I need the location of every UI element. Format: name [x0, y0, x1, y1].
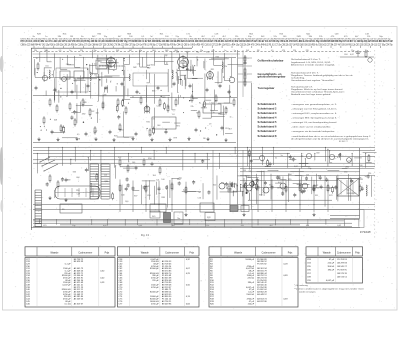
svg-text:0,1: 0,1	[301, 155, 304, 157]
svg-text:100: 100	[96, 112, 99, 114]
svg-text:- wordt bediend door de in- en: - wordt bediend door de in- en uit-schak…	[291, 135, 371, 138]
svg-text:5n: 5n	[69, 50, 71, 52]
svg-text:F71048: F71048	[360, 230, 371, 234]
svg-text:C64: C64	[344, 54, 347, 56]
svg-text:B8 979 35: B8 979 35	[337, 273, 347, 275]
svg-text:8u: 8u	[158, 193, 160, 195]
svg-text:5n: 5n	[234, 50, 236, 52]
svg-text:5n: 5n	[281, 155, 283, 157]
svg-text:1n: 1n	[113, 70, 115, 72]
svg-text:220 kΩ: 220 kΩ	[248, 278, 255, 280]
svg-text:Gevoeligheids- en: Gevoeligheids- en	[258, 74, 283, 76]
svg-text:5n: 5n	[224, 50, 226, 52]
svg-text:S9: S9	[196, 112, 198, 114]
svg-text:S91: S91	[176, 125, 179, 127]
svg-text:Schakelstand 2: Schakelstand 2	[258, 107, 278, 110]
svg-text:3k3: 3k3	[246, 50, 249, 52]
svg-text:470: 470	[282, 50, 285, 52]
svg-text:S33: S33	[73, 172, 76, 174]
svg-text:220 µF: 220 µF	[328, 262, 335, 264]
svg-text:0,02: 0,02	[139, 225, 143, 227]
svg-text:Schakelstand 1: Schakelstand 1	[258, 103, 278, 106]
svg-text:C9: C9	[209, 124, 211, 126]
svg-text:C16: C16	[197, 197, 200, 199]
svg-text:S11: S11	[315, 195, 318, 197]
svg-text:A3 319 37: A3 319 37	[74, 302, 84, 305]
svg-text:- ontvangst van het KG2-gebied: - ontvangst van het KG2-gebied, 13-50 m.	[291, 107, 337, 110]
svg-text:2M2: 2M2	[82, 114, 86, 116]
svg-text:Golfbereikschakelaar: Golfbereikschakelaar	[258, 60, 284, 63]
svg-text:6k8: 6k8	[175, 50, 178, 52]
svg-text:6k8: 6k8	[54, 119, 57, 121]
svg-text:0,047 µF: 0,047 µF	[62, 285, 71, 287]
svg-text:15p: 15p	[139, 50, 142, 52]
svg-text:15p: 15p	[94, 50, 97, 52]
svg-text:6k8: 6k8	[165, 50, 168, 52]
svg-text:Schakelstand 5 t/m 7.: Schakelstand 5 t/m 7.	[291, 58, 322, 61]
svg-text:S52: S52	[94, 75, 97, 77]
svg-text:70p: 70p	[365, 50, 368, 52]
svg-text:S45: S45	[152, 216, 155, 218]
svg-text:100: 100	[161, 179, 164, 181]
svg-text:R6: R6	[203, 138, 205, 140]
svg-text:R51: R51	[76, 190, 79, 192]
svg-text:S37: S37	[134, 196, 137, 198]
svg-text:F5 970 92: F5 970 92	[257, 263, 267, 265]
svg-text:R34: R34	[148, 158, 151, 160]
svg-text:Codenummer: Codenummer	[78, 252, 92, 255]
svg-text:C14: C14	[147, 195, 150, 197]
svg-text:C4: C4	[172, 114, 174, 116]
svg-text:22k: 22k	[34, 50, 37, 52]
svg-text:12k: 12k	[206, 225, 209, 227]
svg-text:S89: S89	[221, 113, 224, 115]
svg-text:Waarde: Waarde	[141, 252, 150, 255]
svg-text:R69: R69	[67, 179, 70, 181]
svg-text:6k8: 6k8	[316, 152, 319, 154]
svg-text:Regelbaar. Werkt in op het hog: Regelbaar. Werkt in op het hoge tonen-ka…	[291, 88, 343, 91]
svg-text:470: 470	[43, 225, 46, 227]
svg-text:Waarde: Waarde	[323, 252, 332, 255]
svg-text:15p: 15p	[72, 225, 75, 227]
svg-text:22k: 22k	[191, 106, 194, 108]
svg-text:C91: C91	[94, 131, 97, 133]
svg-text:Waarde: Waarde	[234, 252, 243, 255]
svg-text:R64: R64	[216, 57, 219, 59]
svg-text:47 µF: 47 µF	[329, 259, 335, 261]
svg-text:220 µF: 220 µF	[152, 280, 159, 282]
svg-text:0,02: 0,02	[183, 190, 187, 192]
svg-text:3k3: 3k3	[153, 175, 156, 177]
svg-text:1M: 1M	[243, 170, 246, 172]
svg-text:50p: 50p	[44, 50, 47, 52]
svg-text:0,02: 0,02	[278, 182, 282, 184]
svg-text:Schakelstand 4: Schakelstand 4	[258, 116, 278, 119]
svg-text:0,1 pF: 0,1 pF	[65, 263, 72, 265]
svg-text:0,1: 0,1	[262, 161, 265, 163]
svg-text:- idem; doch via het smalband-: - idem; doch via het smalband-filter.	[291, 125, 332, 128]
svg-text:R55: R55	[288, 179, 291, 181]
svg-text:220: 220	[306, 50, 309, 52]
svg-text:R20: R20	[120, 129, 123, 131]
svg-text:B8 628 39: B8 628 39	[74, 261, 84, 263]
svg-text:C85 8u R12 470 C46 50p: C85 8u R12 470 C46 50p R96 5n C40 39k R1…	[21, 38, 392, 40]
svg-text:R65: R65	[162, 97, 165, 99]
svg-text:4k7: 4k7	[186, 52, 189, 54]
svg-text:A3 299 83: A3 299 83	[337, 261, 347, 264]
svg-text:4700 pF: 4700 pF	[151, 287, 159, 289]
svg-text:0,047 µF: 0,047 µF	[326, 280, 335, 282]
svg-text:S78: S78	[329, 195, 332, 197]
svg-text:22k: 22k	[359, 178, 362, 180]
svg-text:Gecombineerd met regelaar "Gra: Gecombineerd met regelaar "Gramofilter".	[291, 79, 335, 82]
svg-text:Gecombineerd met schakelaar "B: Gecombineerd met schakelaar "Breede-Spit…	[291, 91, 345, 94]
svg-text:100: 100	[306, 225, 309, 227]
svg-text:220: 220	[66, 64, 69, 66]
svg-text:0,1: 0,1	[337, 157, 340, 159]
svg-text:390 pF: 390 pF	[248, 282, 255, 284]
svg-text:Codenummer: Codenummer	[262, 252, 276, 255]
svg-text:S34: S34	[221, 183, 224, 185]
svg-text:S17: S17	[269, 185, 272, 187]
svg-text:100: 100	[125, 201, 128, 203]
svg-text:B8 449 96: B8 449 96	[162, 303, 172, 305]
svg-text:S51: S51	[225, 128, 228, 130]
svg-text:B3 841 27: B3 841 27	[339, 141, 348, 143]
svg-text:Schakelstand 8: Schakelstand 8	[258, 135, 278, 138]
svg-text:Schakelstand 3 t/m 7.: Schakelstand 3 t/m 7.	[291, 71, 320, 74]
svg-text:S68: S68	[259, 194, 262, 196]
svg-text:S22: S22	[98, 185, 101, 187]
svg-text:Codenummer: Codenummer	[165, 252, 179, 255]
svg-text:- weergave van gramofoonplaten: - weergave van gramofoonplaten, st. 5.	[291, 103, 338, 106]
svg-text:R32: R32	[164, 55, 167, 57]
svg-text:S61: S61	[150, 65, 153, 67]
svg-text:Waarde: Waarde	[50, 252, 59, 255]
svg-text:3k3: 3k3	[116, 50, 119, 52]
svg-text:39k: 39k	[329, 162, 332, 164]
svg-text:390 kΩ: 390 kΩ	[328, 266, 335, 268]
svg-text:0,1: 0,1	[249, 171, 252, 173]
svg-text:82000 pF: 82000 pF	[150, 292, 159, 294]
svg-text:4700 µF: 4700 µF	[151, 303, 159, 305]
svg-text:0,02: 0,02	[337, 225, 341, 227]
svg-text:de afregelstrookjes zijn bij d: de afregelstrookjes zijn bij de lijnen i…	[291, 138, 370, 141]
svg-text:F5 763 93: F5 763 93	[337, 259, 347, 261]
svg-text:10000 pF: 10000 pF	[245, 259, 254, 261]
svg-text:0,5: 0,5	[77, 134, 80, 136]
svg-text:worden vervangen.: worden vervangen.	[299, 292, 316, 294]
svg-text:0,5: 0,5	[104, 50, 107, 52]
svg-text:1n: 1n	[229, 117, 231, 119]
svg-text:5n: 5n	[329, 188, 331, 190]
svg-text:4k7: 4k7	[270, 225, 273, 227]
svg-text:- ontvangst LG; met bandspreid: - ontvangst LG; met bandspreiding kanaal…	[291, 121, 337, 124]
svg-text:A3 449 12: A3 449 12	[257, 293, 267, 296]
svg-text:C49: C49	[77, 194, 80, 196]
svg-text:**) Deze condensator is afgere: **) Deze condensator is afgeregeld en ma…	[294, 287, 364, 290]
svg-text:0,5: 0,5	[94, 63, 97, 65]
svg-text:R89: R89	[83, 102, 86, 104]
svg-text:C74: C74	[151, 118, 154, 120]
svg-text:220 pF: 220 pF	[248, 303, 255, 305]
svg-text:S51: S51	[118, 157, 121, 159]
svg-text:Fig. 13: Fig. 13	[141, 233, 149, 237]
svg-text:4k7: 4k7	[215, 101, 218, 103]
svg-text:220: 220	[368, 173, 371, 175]
svg-text:0,1 kΩ: 0,1 kΩ	[65, 303, 71, 305]
svg-text:S36: S36	[152, 90, 155, 92]
svg-text:S62: S62	[147, 67, 150, 69]
svg-text:22k: 22k	[104, 175, 107, 177]
svg-text:6k8: 6k8	[313, 188, 316, 190]
svg-text:Schakelstand C7.: Schakelstand C7.	[291, 85, 314, 88]
svg-text:82000 pF: 82000 pF	[150, 268, 159, 270]
svg-text:C51: C51	[45, 65, 48, 67]
svg-text:470: 470	[241, 225, 244, 227]
svg-text:C86 5n C23 6k8 R94 4k7: C86 5n C23 6k8 R94 4k7 C42 15p R26 5n C8…	[21, 42, 393, 46]
svg-text:5n: 5n	[213, 112, 215, 114]
svg-text:70p: 70p	[346, 190, 349, 192]
svg-text:C42: C42	[91, 111, 94, 113]
svg-text:15p: 15p	[351, 50, 354, 52]
svg-text:- ontvangst MG; fijnregeling v: - ontvangst MG; fijnregeling via knop 3.	[291, 116, 338, 119]
svg-text:A3 574 51: A3 574 51	[337, 275, 347, 278]
svg-text:0,5: 0,5	[59, 50, 62, 52]
svg-text:8u: 8u	[257, 189, 259, 191]
svg-text:100: 100	[359, 165, 362, 167]
svg-text:Codenummer: Codenummer	[337, 252, 351, 255]
svg-text:70p: 70p	[196, 52, 199, 54]
svg-text:Toonregelaar: Toonregelaar	[258, 87, 275, 90]
svg-text:C52: C52	[137, 64, 140, 66]
svg-text:5n: 5n	[275, 158, 277, 160]
svg-text:0,5: 0,5	[271, 50, 274, 52]
svg-text:1M: 1M	[257, 50, 260, 52]
svg-text:Schakelstand 5: Schakelstand 5	[258, 121, 278, 124]
svg-text:geluidssterkteregelaar: geluidssterkteregelaar	[258, 76, 286, 79]
svg-text:C40: C40	[121, 194, 124, 196]
svg-text:S4: S4	[211, 103, 213, 105]
svg-text:R79: R79	[174, 137, 177, 139]
svg-text:470: 470	[122, 106, 125, 108]
svg-text:A3 837 86: A3 837 86	[257, 300, 267, 303]
svg-text:70p: 70p	[177, 218, 180, 220]
svg-text:S20: S20	[213, 184, 216, 186]
svg-text:S9: S9	[62, 209, 64, 211]
svg-text:4k7: 4k7	[229, 128, 232, 130]
svg-text:3k3: 3k3	[157, 125, 160, 127]
svg-text:5n: 5n	[365, 176, 367, 178]
svg-text:6k8: 6k8	[76, 177, 79, 179]
svg-text:390 pF: 390 pF	[328, 269, 335, 271]
svg-text:4k7: 4k7	[129, 50, 132, 52]
svg-text:C38: C38	[103, 94, 106, 96]
svg-text:C32: C32	[148, 135, 151, 137]
svg-text:4k7: 4k7	[172, 225, 175, 227]
svg-text:0,02: 0,02	[294, 166, 298, 168]
svg-text:22k: 22k	[224, 66, 227, 68]
svg-text:12k: 12k	[156, 179, 159, 181]
svg-text:Afstemmen in beide standen mog: Afstemmen in beide standen mogelijk.	[291, 63, 336, 66]
svg-text:R88: R88	[161, 197, 164, 199]
svg-text:2M2: 2M2	[345, 166, 349, 168]
svg-text:22k: 22k	[80, 50, 83, 52]
svg-text:8u: 8u	[79, 55, 81, 57]
svg-text:R31: R31	[146, 121, 149, 123]
svg-text:6k8: 6k8	[147, 65, 150, 67]
svg-text:4k7: 4k7	[248, 177, 251, 179]
svg-text:B8 945 27: B8 945 27	[337, 266, 347, 268]
svg-text:2M2: 2M2	[133, 67, 137, 69]
svg-text:0,02: 0,02	[103, 225, 107, 227]
svg-text:- ontvangst KG1; voorkeurzende: - ontvangst KG1; voorkeurzenders nr. 4.	[291, 112, 338, 115]
svg-text:R80: R80	[105, 181, 108, 183]
svg-text:S28: S28	[207, 217, 210, 219]
svg-text:5n: 5n	[301, 176, 303, 178]
svg-text:Schakelstand 7: Schakelstand 7	[258, 130, 278, 133]
svg-text:Regelbaar. Tevens: bediend gel: Regelbaar. Tevens: bediend gelijktijdig …	[291, 74, 353, 77]
svg-text:100: 100	[132, 162, 135, 164]
svg-text:F5 909 95: F5 909 95	[337, 269, 347, 271]
svg-text:R42: R42	[146, 186, 149, 188]
svg-text:A3 509 23: A3 509 23	[74, 298, 84, 301]
svg-text:1500 kΩ: 1500 kΩ	[246, 294, 254, 296]
svg-text:0,02: 0,02	[350, 54, 354, 56]
svg-text:C43: C43	[156, 106, 159, 108]
svg-text:R31: R31	[211, 69, 214, 71]
svg-text:15p: 15p	[200, 50, 203, 52]
svg-text:*) Op aanvraag.: *) Op aanvraag.	[294, 285, 309, 287]
svg-text:Bedoeld voor het lage tonen-ge: Bedoeld voor het lage tonen-gebied.	[291, 93, 331, 96]
svg-text:6k8: 6k8	[152, 50, 155, 52]
svg-text:70p: 70p	[308, 168, 311, 170]
svg-text:5n: 5n	[198, 192, 200, 194]
svg-text:8u: 8u	[199, 103, 201, 105]
svg-text:0,5: 0,5	[212, 50, 215, 52]
svg-text:Schakelstand 6: Schakelstand 6	[258, 125, 278, 128]
svg-text:- weergave via de tweede luids: - weergave via de tweede luidspreker.	[291, 130, 336, 133]
svg-text:0,02: 0,02	[206, 52, 210, 54]
svg-text:Schakelstand 3: Schakelstand 3	[258, 112, 278, 115]
svg-text:R59: R59	[177, 179, 180, 181]
svg-text:220: 220	[293, 50, 296, 52]
